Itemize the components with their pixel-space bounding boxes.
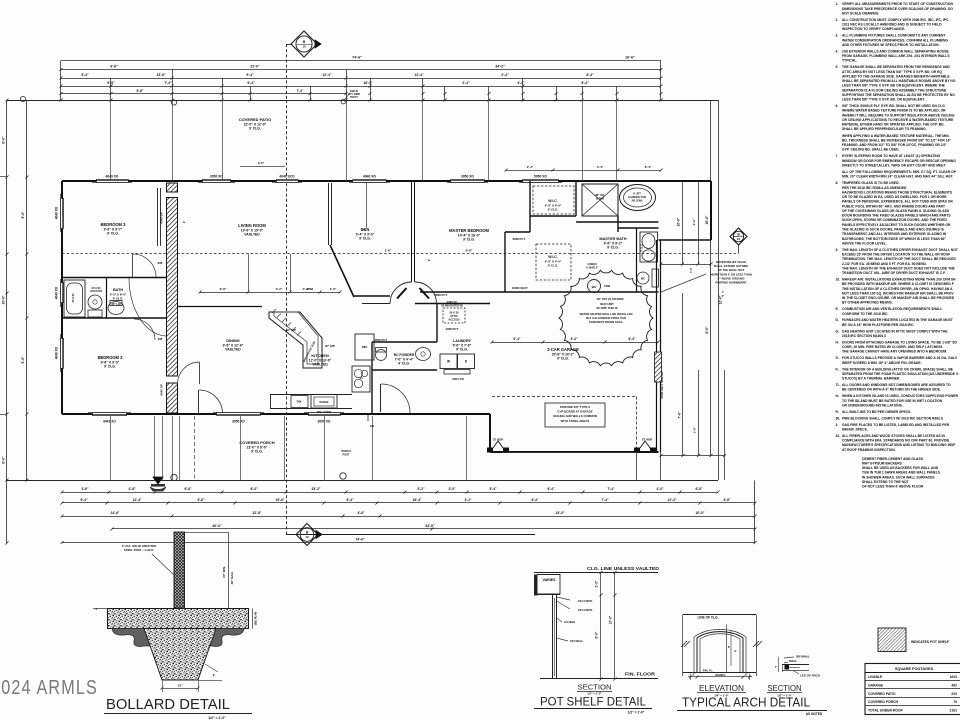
svg-text:4042 XO: 4042 XO (103, 420, 116, 424)
svg-text:9' CLG.: 9' CLG. (359, 237, 371, 241)
svg-text:5'-8": 5'-8" (137, 89, 144, 93)
svg-text:16080 SECT.: 16080 SECT. (512, 286, 529, 290)
svg-text:10'-0": 10'-0" (609, 615, 613, 624)
svg-text:10'-0": 10'-0" (677, 217, 681, 226)
svg-text:6'-4": 6'-4" (250, 487, 258, 491)
svg-text:CEMENT FIBER-CEMENT AND GLASS: CEMENT FIBER-CEMENT AND GLASS (862, 457, 924, 461)
svg-text:12'-4": 12'-4" (668, 498, 677, 502)
svg-text:2011 NEC AS LOCALLY AMENDED AN: 2011 NEC AS LOCALLY AMENDED AND IS SUBJE… (842, 23, 942, 27)
svg-text:33'-2": 33'-2" (312, 487, 321, 491)
svg-text:5'-4": 5'-4" (489, 487, 497, 491)
svg-text:VARIES: VARIES (542, 578, 556, 582)
svg-text:BOLLARD DETAIL: BOLLARD DETAIL (106, 697, 230, 713)
svg-text:16'-6": 16'-6" (625, 56, 635, 60)
svg-text:MAKEUP AIR: INSTALLATIONS EXHA: MAKEUP AIR: INSTALLATIONS EXHAUSTING MOR… (842, 278, 956, 282)
svg-text:ALL DOORS AND WINDOWS NOT DIME: ALL DOORS AND WINDOWS NOT DIMENSIONED AR… (842, 383, 951, 387)
svg-text:2668 PCT.: 2668 PCT. (512, 237, 525, 241)
svg-text:SECTION: SECTION (578, 683, 612, 692)
svg-text:4'-0": 4'-0" (330, 287, 337, 291)
svg-text:4'-4": 4'-4" (597, 165, 604, 169)
svg-text:368: 368 (158, 337, 163, 341)
svg-text:9' CLG.: 9' CLG. (104, 365, 116, 369)
svg-text:2'-4": 2'-4" (462, 81, 470, 85)
svg-text:SHALL BE SEPARATED FROM ALL HA: SHALL BE SEPARATED FROM ALL HABITABLE RO… (842, 79, 956, 83)
svg-text:DW: DW (297, 400, 302, 404)
svg-text:8'-0": 8'-0" (2, 136, 6, 144)
svg-text:WITH LIVING AREAS: WITH LIVING AREAS (561, 419, 590, 423)
svg-text:462: 462 (951, 683, 957, 687)
svg-text:SHALL EXTEND TO THE NOT: SHALL EXTEND TO THE NOT (862, 480, 909, 484)
svg-text:GARAGE: GARAGE (868, 683, 884, 687)
svg-text:STEEL POST —U.N.O.: STEEL POST —U.N.O. (124, 548, 155, 552)
svg-text:7'-6": 7'-6" (678, 411, 682, 419)
svg-text:W/ SMK THM 18: W/ SMK THM 18 (596, 306, 618, 310)
svg-text:SQUARE FOOTAGES: SQUARE FOOTAGES (895, 667, 934, 671)
svg-text:6'-8": 6'-8" (723, 498, 731, 502)
svg-text:1/2" = 1'-0": 1/2" = 1'-0" (587, 692, 602, 696)
svg-text:VAULTED: VAULTED (225, 348, 241, 352)
svg-text:WATER CONSERVATION ORDINANCES.: WATER CONSERVATION ORDINANCES. CONFIRM A… (842, 38, 948, 42)
svg-text:NOT SCALE DRAWING.: NOT SCALE DRAWING. (842, 12, 879, 16)
svg-text:ALL OF THE FOLLOWING REQUIREME: ALL OF THE FOLLOWING REQUIREMENTS: MIN. … (842, 170, 957, 174)
svg-text:GARDEN TUB: GARDEN TUB (628, 195, 646, 199)
svg-text:THE GLAZING IS SUCH DOORS, PAN: THE GLAZING IS SUCH DOORS, PANELS AND EN… (842, 228, 945, 232)
svg-text:8'-8": 8'-8" (466, 249, 473, 253)
svg-text:4'-8": 4'-8" (357, 511, 365, 515)
svg-text:DBL OVEN: DBL OVEN (317, 410, 331, 414)
svg-text:TERMINATION. THE MAX. LENGTH O: TERMINATION. THE MAX. LENGTH OF THE DUCT… (842, 257, 957, 261)
svg-text:BEDROOM 3: BEDROOM 3 (101, 222, 127, 227)
svg-text:THE INSTALLATION OF A CLOTHES: THE INSTALLATION OF A CLOTHES DRYER, AN … (842, 287, 953, 291)
svg-text:12'-4": 12'-4" (414, 73, 424, 77)
svg-text:3050 XO: 3050 XO (232, 420, 245, 424)
svg-text:HAZARDOUS LOCATIONS MEANS THOS: HAZARDOUS LOCATIONS MEANS THOSE STRUCTUR… (842, 191, 953, 195)
svg-text:REF: REF (362, 345, 368, 349)
svg-text:G.: G. (836, 329, 840, 333)
svg-text:2868 PCT.: 2868 PCT. (434, 293, 447, 297)
svg-text:30 X 30: 30 X 30 (449, 311, 459, 315)
svg-text:7'-4": 7'-4" (164, 81, 172, 85)
svg-text:LIVABLE: LIVABLE (868, 675, 883, 679)
svg-text:74'-6": 74'-6" (355, 537, 365, 541)
svg-text:SECTION: SECTION (768, 684, 802, 693)
svg-text:10: 10 (305, 535, 309, 539)
svg-text:ALL PLUMBING FIXTURES SHALL CO: ALL PLUMBING FIXTURES SHALL CONFORM TO A… (842, 34, 945, 38)
svg-text:1/2" = 1'-0": 1/2" = 1'-0" (628, 711, 645, 715)
svg-text:3'-2": 3'-2" (464, 498, 472, 502)
svg-text:8'-4": 8'-4" (586, 73, 594, 77)
svg-text:COMBUSTION AIR AND VENTILATION: COMBUSTION AIR AND VENTILATION REQUIREME… (842, 307, 942, 311)
svg-text:AND OTHER FIXTURES W/ SPECS PR: AND OTHER FIXTURES W/ SPECS PRIOR TO INS… (842, 43, 940, 47)
svg-text:2': 2' (182, 221, 186, 224)
svg-text:NOT LESS THAN 100 SQ. INCHES F: NOT LESS THAN 100 SQ. INCHES FOR MAKEUP … (842, 291, 954, 295)
svg-text:4040 SP: 4040 SP (160, 212, 164, 224)
svg-text:9'-4": 9'-4" (247, 81, 255, 85)
svg-text:9' CLG.: 9' CLG. (107, 232, 119, 236)
svg-text:3050 XO: 3050 XO (452, 377, 465, 381)
svg-text:220: 220 (951, 692, 957, 696)
svg-text:3068 SC: 3068 SC (447, 300, 458, 304)
svg-text:GAS FIRE PLACES TO BE LISTED,: GAS FIRE PLACES TO BE LISTED, LABELED AN… (842, 423, 950, 427)
svg-text:2-1/2' FOR EA. 45 BEND AND 5 F: 2-1/2' FOR EA. 45 BEND AND 5 FT. FOR EA.… (842, 262, 927, 266)
svg-text:10'-0": 10'-0" (2, 295, 6, 304)
svg-text:9'-6": 9'-6" (21, 356, 25, 363)
svg-text:FIRE BLOCKING SHALL COMPLY W/: FIRE BLOCKING SHALL COMPLY W/ 2018 IRC S… (842, 416, 943, 420)
svg-text:WHERE WATER BASED TEXTURE FINI: WHERE WATER BASED TEXTURE FINISH IS TO B… (842, 109, 946, 113)
svg-text:2': 2' (213, 673, 216, 677)
svg-text:6'-4": 6'-4" (629, 337, 636, 341)
svg-text:3'-6": 3'-6" (81, 487, 89, 491)
svg-text:DIRECTLY TO STREET,ALLEY, YARD: DIRECTLY TO STREET,ALLEY, YARD OR EXIT C… (842, 164, 945, 168)
svg-text:8.: 8. (836, 181, 839, 185)
svg-text:7'-4": 7'-4" (607, 487, 615, 491)
svg-text:368: 368 (158, 261, 163, 265)
svg-text:THE MAX. LENGTH OF A CLOTHES D: THE MAX. LENGTH OF A CLOTHES DRYER EXHAU… (842, 248, 958, 252)
svg-text:BD. THICKNESS SHALL BE INCREAS: BD. THICKNESS SHALL BE INCREASED FROM 3/… (842, 139, 951, 143)
svg-text:8': 8' (734, 649, 736, 653)
svg-text:RANGE: RANGE (319, 401, 328, 404)
svg-text:HOLD-DN: HOLD-DN (90, 289, 102, 293)
svg-text:18'-4": 18'-4" (413, 498, 422, 502)
svg-text:TUB IN TUB 1 SHWR AREAS AND WA: TUB IN TUB 1 SHWR AREAS AND WALL PANELS (862, 471, 941, 475)
svg-text:3'-0": 3'-0" (258, 161, 265, 165)
svg-text:19'-6": 19'-6" (276, 498, 285, 502)
svg-text:3.: 3. (836, 34, 839, 38)
svg-text:6'-4": 6'-4" (531, 498, 539, 502)
svg-text:ATTIC: ATTIC (450, 314, 458, 318)
svg-text:FIN. FL.: FIN. FL. (703, 669, 713, 673)
svg-text:GYP. CEILING BD. SHALL BE USED: GYP. CEILING BD. SHALL BE USED. (842, 148, 900, 152)
svg-text:SHWR: SHWR (596, 196, 604, 200)
svg-text:74'-6": 74'-6" (352, 56, 362, 60)
svg-text:POST: POST (342, 452, 349, 456)
svg-text:4040 XO: 4040 XO (105, 175, 118, 179)
svg-text:W: W (447, 360, 450, 364)
svg-text:8'-4": 8'-4" (645, 165, 652, 169)
svg-text:STUCCO) BY A THERMAL BARRIER.: STUCCO) BY A THERMAL BARRIER. (842, 377, 900, 381)
svg-text:9'-8": 9'-8" (220, 287, 227, 291)
svg-text:LAUNDRY: LAUNDRY (453, 339, 471, 343)
svg-text:LIVING ROOM: LIVING ROOM (238, 223, 266, 228)
svg-text:4'-4": 4'-4" (517, 81, 525, 85)
svg-text:BEDROOM 2: BEDROOM 2 (98, 355, 124, 360)
svg-text:40'-0": 40'-0" (212, 524, 222, 528)
svg-text:N.: N. (836, 394, 839, 398)
svg-text:BATHROOMS, THE BOTTOM EDGE OF: BATHROOMS, THE BOTTOM EDGE OF WHICH IS L… (842, 237, 946, 241)
svg-text:EXCEED 25' FROM THE DRYER LOCA: EXCEED 25' FROM THE DRYER LOCATION TO TH… (842, 253, 950, 257)
svg-text:CEILING AND WALLS COMMON: CEILING AND WALLS COMMON (553, 414, 597, 418)
svg-text:DEN: DEN (361, 227, 370, 232)
svg-text:BE PROVIDED WITH MAKEUP AIR. W: BE PROVIDED WITH MAKEUP AIR. WHERE A CLO… (842, 282, 954, 286)
svg-text:EVERY SLEEPING ROOM TO HAVE AT: EVERY SLEEPING ROOM TO HAVE AT LEAST (1)… (842, 154, 941, 158)
svg-text:AT ROOF FRAMING INSPECTION.: AT ROOF FRAMING INSPECTION. (842, 448, 896, 452)
svg-text:9' CLG.: 9' CLG. (548, 208, 559, 212)
svg-text:OR UNDERGROUND INSTALLATIONS.: OR UNDERGROUND INSTALLATIONS. (842, 403, 903, 407)
svg-text:1643: 1643 (949, 675, 957, 679)
svg-text:9' CLG.: 9' CLG. (548, 264, 559, 268)
svg-text:PANELS EFFECTIVELY ADJACENT TO: PANELS EFFECTIVELY ADJACENT TO SUCH DOOR… (842, 223, 951, 227)
svg-text:9' CLG.: 9' CLG. (398, 362, 410, 366)
svg-text:4040 SP: 4040 SP (160, 384, 164, 396)
svg-text:12": 12" (178, 684, 183, 688)
svg-text:8'-4": 8'-4" (581, 81, 589, 85)
svg-text:2X4 WALL: 2X4 WALL (570, 639, 583, 643)
svg-text:THE GARAGE SHALL BE SEPARATED: THE GARAGE SHALL BE SEPARATED FROM THE R… (842, 65, 950, 69)
svg-text:2'-4": 2'-4" (501, 73, 509, 77)
svg-text:PER THE 2018 IRC R308.4 AS AME: PER THE 2018 IRC R308.4 AS AMENDED (842, 186, 907, 190)
svg-text:THE GARAGE CANNOT HAVE ANY OPE: THE GARAGE CANNOT HAVE ANY OPENINGS INTO… (842, 350, 947, 354)
svg-text:PORCH: PORCH (341, 449, 350, 453)
svg-text:©2024 ARMLS: ©2024 ARMLS (0, 676, 98, 699)
svg-text:4040 XO: 4040 XO (55, 206, 59, 219)
svg-text:TYPICAL ARCH DETAIL: TYPICAL ARCH DETAIL (682, 696, 810, 710)
svg-text:VAULTED: VAULTED (312, 363, 328, 367)
svg-text:30" MIN.: 30" MIN. (222, 566, 226, 578)
svg-text:8'-0": 8'-0" (705, 326, 709, 334)
svg-text:42" APP: 42" APP (286, 328, 296, 332)
svg-text:2'-4": 2'-4" (527, 165, 534, 169)
svg-text:12'-4": 12'-4" (322, 73, 332, 77)
svg-text:36" APP: 36" APP (325, 344, 335, 348)
svg-text:5.: 5. (836, 65, 839, 69)
svg-text:4040 XO: 4040 XO (55, 346, 59, 359)
svg-text:36" LIN: 36" LIN (111, 302, 120, 306)
svg-text:OR TO BE GLAZED IN EA. USED AS: OR TO BE GLAZED IN EA. USED AS DWELLING.… (842, 195, 947, 199)
svg-text:COVERED PATIO: COVERED PATIO (239, 117, 272, 122)
svg-text:1'-0": 1'-0" (689, 266, 693, 272)
svg-text:ELEVATION: ELEVATION (699, 684, 744, 693)
svg-text:1.: 1. (836, 2, 839, 6)
svg-text:9'-4": 9'-4" (246, 73, 254, 77)
svg-text:76: 76 (953, 700, 957, 704)
svg-text:WALL: WALL (789, 659, 797, 663)
svg-text:COVERED PORCH: COVERED PORCH (868, 700, 899, 704)
svg-text:VARIES: VARIES (715, 673, 726, 677)
svg-text:ALL FIREPLACES AND WOOD STOVES: ALL FIREPLACES AND WOOD STOVES SHALL BE … (842, 434, 945, 438)
svg-text:24'-0": 24'-0" (556, 511, 565, 515)
svg-text:DOORS FROM ATTACHED GARAGE TO: DOORS FROM ATTACHED GARAGE TO LIVING SPA… (842, 341, 957, 345)
svg-text:ACCESS: ACCESS (448, 318, 459, 322)
svg-text:INDICATES POT SHELF: INDICATES POT SHELF (911, 640, 949, 644)
svg-text:3'-2": 3'-2" (417, 487, 425, 491)
svg-text:PUBLIC POOL WITHIN 60" ARC. AN: PUBLIC POOL WITHIN 60" ARC. AND WHERE DO… (842, 204, 945, 208)
svg-text:4.: 4. (836, 49, 839, 53)
svg-text:ATTIC AREA BY NOT LESS THAN 5/: ATTIC AREA BY NOT LESS THAN 5/8" TYPE X … (842, 70, 942, 74)
svg-text:R.: R. (836, 410, 839, 414)
svg-text:TL.: TL. (836, 383, 841, 387)
svg-text:48" SQ.: 48" SQ. (595, 193, 605, 197)
svg-text:6'-4": 6'-4" (346, 498, 354, 502)
svg-text:22'-0": 22'-0" (250, 65, 260, 69)
svg-text:9'-6": 9'-6" (110, 65, 118, 69)
svg-text:LINE OF CLG.: LINE OF CLG. (697, 616, 718, 620)
svg-text:AB JENA: AB JENA (632, 199, 643, 202)
svg-text:3068 PCT.: 3068 PCT. (445, 327, 458, 331)
svg-text:LESS THAN 5/8" TYPE X GYP. BD: LESS THAN 5/8" TYPE X GYP. BD OR EQUIVAL… (842, 84, 946, 88)
svg-text:DINING: DINING (226, 338, 240, 343)
svg-text:W.I.C.: W.I.C. (548, 199, 558, 203)
svg-text:SS: SS (359, 377, 363, 380)
svg-text:8'-0": 8'-0" (2, 456, 6, 464)
svg-text:4'-8": 4'-8" (128, 487, 136, 491)
svg-text:4'-6": 4'-6" (692, 218, 696, 225)
svg-text:W.I.C.: W.I.C. (548, 255, 558, 259)
svg-text:34'-6": 34'-6" (425, 524, 435, 528)
svg-text:TOTAL UNDER ROOF: TOTAL UNDER ROOF (868, 709, 903, 713)
svg-text:RC POWDER: RC POWDER (394, 353, 415, 357)
svg-text:APPLIED TO THE GARAGE SIDE. GA: APPLIED TO THE GARAGE SIDE. GARAGES BENE… (842, 74, 950, 78)
svg-text:7'-4": 7'-4" (601, 498, 609, 502)
svg-text:3'-0": 3'-0" (448, 487, 456, 491)
svg-text:ABOVE THE FLOOR LEVEL.: ABOVE THE FLOOR LEVEL. (842, 241, 887, 245)
svg-text:4'-0": 4'-0" (656, 487, 664, 491)
svg-text:IN THE CLOSET ENCLOSURE, OR MA: IN THE CLOSET ENCLOSURE, OR MAKEUP AIR S… (842, 296, 955, 300)
svg-text:WC: WC (641, 277, 645, 281)
svg-text:TEMPERED GLASS IS TO BE USED:: TEMPERED GLASS IS TO BE USED: (842, 181, 900, 185)
svg-text:48" MAX.: 48" MAX. (230, 571, 234, 584)
svg-text:2161: 2161 (949, 709, 957, 713)
svg-text:6'-8": 6'-8" (107, 81, 115, 85)
svg-text:2.: 2. (836, 18, 839, 22)
svg-text:H.: H. (836, 341, 839, 345)
svg-text:16'-9": 16'-9" (363, 81, 373, 85)
svg-text:12'-4": 12'-4" (133, 498, 142, 502)
svg-text:CONCRETE DRAIN SHLS.: CONCRETE DRAIN SHLS. (589, 320, 624, 324)
svg-text:6 SHELF: 6 SHELF (586, 266, 598, 270)
svg-text:10: 10 (302, 45, 306, 49)
svg-text:WHERE IT WILL REQUIRE TO SUPPO: WHERE IT WILL REQUIRE TO SUPPORT INSULAT… (842, 113, 955, 117)
svg-text:9' CLG.: 9' CLG. (113, 296, 124, 300)
svg-text:3050 XO: 3050 XO (210, 175, 223, 179)
svg-text:2-CAR GARAGE: 2-CAR GARAGE (547, 347, 579, 352)
svg-text:ALL CONSTRUCTION MUST COMPLY W: ALL CONSTRUCTION MUST COMPLY WITH 2006 I… (842, 18, 949, 22)
svg-text:S.: S. (836, 356, 839, 360)
svg-text:DIMENSIONS TAKE PRECEDENCE OVE: DIMENSIONS TAKE PRECEDENCE OVER SCALING … (842, 7, 953, 11)
svg-text:PANELS OF PERSONAL EXPERIENCE.: PANELS OF PERSONAL EXPERIENCE. ALL HOT T… (842, 200, 953, 204)
svg-text:D.: D. (836, 318, 839, 322)
svg-text:OF NOT LESS THAN 6' ABOVE FLOO: OF NOT LESS THAN 6' ABOVE FLOOR (862, 485, 924, 489)
svg-text:2X4 CONTL: 2X4 CONTL (578, 608, 593, 612)
svg-text:BATH: BATH (113, 288, 123, 292)
svg-text:AS NOTED: AS NOTED (806, 712, 823, 716)
svg-text:ST HDR: ST HDR (642, 438, 652, 442)
svg-text:3'-8": 3'-8" (303, 287, 310, 291)
svg-text:WINDOW OR DOOR FOR EMERGENCY E: WINDOW OR DOOR FOR EMERGENCY ESCAPE OR R… (842, 159, 956, 163)
svg-text:K.: K. (836, 367, 839, 371)
svg-text:1'-8": 1'-8" (385, 249, 392, 253)
svg-text:TO THE ISLAND MUST BE RATED FO: TO THE ISLAND MUST BE RATED FOR USE IN W… (842, 399, 943, 403)
svg-text:PORTING DOWNWARD: PORTING DOWNWARD (716, 281, 747, 285)
svg-text:HB: HB (370, 424, 374, 428)
svg-text:3050 XO: 3050 XO (461, 175, 474, 179)
svg-text:2X4 CONTL: 2X4 CONTL (578, 599, 593, 603)
svg-text:4040 XO: 4040 XO (55, 286, 59, 299)
svg-text:MANUFACTURER'S SPECIFICATIONS: MANUFACTURER'S SPECIFICATIONS AND LISTIN… (842, 443, 956, 447)
svg-text:THE INTERIOR OF A BUILDING (AT: THE INTERIOR OF A BUILDING (ATTIC OR CRA… (842, 367, 954, 371)
svg-text:VERIFY ALL MEASUREMENTS PRIOR: VERIFY ALL MEASUREMENTS PRIOR TO START O… (842, 2, 953, 6)
svg-text:1/2 HIGH: 1/2 HIGH (564, 620, 575, 624)
svg-text:7.: 7. (836, 154, 839, 158)
svg-text:LEG OF ARCH: LEG OF ARCH (800, 674, 820, 678)
svg-text:1'-6": 1'-6" (693, 426, 697, 433)
svg-text:6.: 6. (836, 104, 839, 108)
svg-text:1/2" = 1'-0": 1/2" = 1'-0" (208, 716, 226, 720)
svg-text:OF THE CONTAINING GLASS OR GLA: OF THE CONTAINING GLASS OR GLASS PANELS.… (842, 209, 950, 213)
svg-text:MANUF. SPECS.: MANUF. SPECS. (842, 428, 868, 432)
svg-text:TYPICAL.: TYPICAL. (842, 59, 857, 63)
svg-text:14'-6": 14'-6" (111, 511, 120, 515)
svg-text:SHALL BE USED AS BACKERS FOR W: SHALL BE USED AS BACKERS FOR WALL AND (862, 466, 939, 470)
svg-text:GYP-BOARD AT GARAGE: GYP-BOARD AT GARAGE (557, 410, 593, 414)
svg-text:PROVIDE 5/8" TYPE X: PROVIDE 5/8" TYPE X (560, 405, 590, 409)
svg-text:FOR STUCCO WALLS PROVIDE A VAP: FOR STUCCO WALLS PROVIDE A VAPOR BARRIER… (842, 356, 958, 360)
svg-text:6'-8": 6'-8" (184, 487, 192, 491)
svg-text:20 MIN RATED W/: 20 MIN RATED W/ (441, 303, 463, 307)
svg-text:7'-4": 7'-4" (297, 89, 304, 93)
svg-text:9' CLG.: 9' CLG. (249, 127, 261, 131)
svg-text:CONFORM TO THE 2018 IRC.: CONFORM TO THE 2018 IRC. (842, 312, 888, 316)
svg-text:4040 SCO: 4040 SCO (279, 175, 295, 179)
svg-text:9' CLG: 9' CLG (642, 244, 644, 252)
svg-text:CLG. LINE UNLESS VAULTED: CLG. LINE UNLESS VAULTED (587, 566, 660, 571)
svg-text:9' CLG.: 9' CLG. (557, 357, 569, 361)
svg-text:4040 XO: 4040 XO (363, 175, 376, 179)
svg-text:FURNACES AND WATER HEATERS LOC: FURNACES AND WATER HEATERS LOCATED IN TH… (842, 318, 953, 322)
svg-text:SUPPORTING THE SEPARATION SHAL: SUPPORTING THE SEPARATION SHALL ALSO BE … (842, 93, 955, 97)
svg-text:COVERED PORCH: COVERED PORCH (239, 440, 274, 445)
svg-text:MATERIAL EITHER HAND OR SPRAYE: MATERIAL EITHER HAND OR SPRAYED APPLIED.… (842, 123, 945, 127)
svg-text:3.: 3. (836, 423, 839, 427)
svg-text:BE ON A 18" HIGH PLATFORM PER: BE ON A 18" HIGH PLATFORM PER 2018 IRC. (842, 323, 914, 327)
svg-text:ALL BUILT-INS TO BE PER OWNER: ALL BUILT-INS TO BE PER OWNER SPECS. (842, 410, 911, 414)
svg-text:WHEN APPLYING A WATER-BASED TE: WHEN APPLYING A WATER-BASED TEXTURE MATE… (842, 134, 950, 138)
svg-text:FROM GARAGE. PLUMBING WALL ARE: FROM GARAGE. PLUMBING WALL ARE 2X6. 2X4 … (842, 54, 950, 58)
svg-text:DOOR BOUNDING THE FIXED GLAZED: DOOR BOUNDING THE FIXED GLAZED PANELS WH… (842, 214, 951, 218)
svg-text:COMPLIANCE WITH EPA. STANDARDS: COMPLIANCE WITH EPA. STANDARDS NO CFR PA… (842, 439, 950, 443)
svg-text:8'-0": 8'-0" (595, 631, 599, 638)
svg-text:IN SHOWER AREAS. SUCH WALL SUR: IN SHOWER AREAS. SUCH WALL SURFACES (862, 475, 935, 479)
svg-text:5'-4": 5'-4" (81, 73, 89, 77)
svg-text:3'-2": 3'-2" (276, 287, 283, 291)
svg-text:WH: WH (592, 285, 597, 289)
svg-text:POT SHELF DETAIL: POT SHELF DETAIL (540, 697, 647, 709)
svg-text:10'-0": 10'-0" (696, 511, 705, 515)
svg-text:9.: 9. (836, 248, 839, 252)
svg-text:POST: POST (350, 95, 358, 99)
svg-text:SEPARATED FROM THE FOAM PLASTI: SEPARATED FROM THE FOAM PLASTIC INSULATI… (842, 372, 959, 376)
svg-text:MIN. 20" CLEAR WIDTH MIN 24" C: MIN. 20" CLEAR WIDTH MIN 24" CLEAR HGT. … (842, 175, 953, 179)
svg-text:VAULTED: VAULTED (244, 233, 260, 237)
svg-text:9'-4": 9'-4" (571, 337, 578, 341)
svg-text:LESS THAN 5/8" TYPE X GYP. BD.: LESS THAN 5/8" TYPE X GYP. BD. OR EQUIVA… (842, 98, 925, 102)
svg-text:2': 2' (427, 259, 431, 262)
svg-text:8': 8' (728, 645, 730, 649)
svg-text:SHALL BE APPLIED PERPENDICULAR: SHALL BE APPLIED PERPENDICULAR TO FRAMIN… (842, 127, 927, 131)
svg-text:SEE PLAN: SEE PLAN (254, 612, 258, 625)
svg-text:34'-2": 34'-2" (495, 65, 505, 69)
svg-text:MASTER BATH: MASTER BATH (599, 237, 627, 241)
svg-text:KITCHEN: KITCHEN (311, 353, 328, 358)
svg-text:MASTER BEDROOM: MASTER BEDROOM (449, 228, 489, 233)
svg-text:9' CLG.: 9' CLG. (607, 246, 619, 250)
svg-text:18" OFF PLATFORM: 18" OFF PLATFORM (597, 297, 625, 301)
svg-text:9' CLG.: 9' CLG. (251, 450, 263, 454)
svg-text:9' CLG.: 9' CLG. (456, 348, 468, 352)
svg-text:WEEP SCREED A MIN. OF 4" ABOVE: WEEP SCREED A MIN. OF 4" ABOVE FIN. GRAD… (842, 361, 922, 365)
svg-text:2018 IRC SECTION M1305.3: 2018 IRC SECTION M1305.3 (842, 334, 886, 338)
svg-text:10: 10 (737, 237, 741, 241)
svg-text:CORE, 20 MIN. FIRE RATED W/ CL: CORE, 20 MIN. FIRE RATED W/ CLOSER, AND … (842, 345, 943, 349)
